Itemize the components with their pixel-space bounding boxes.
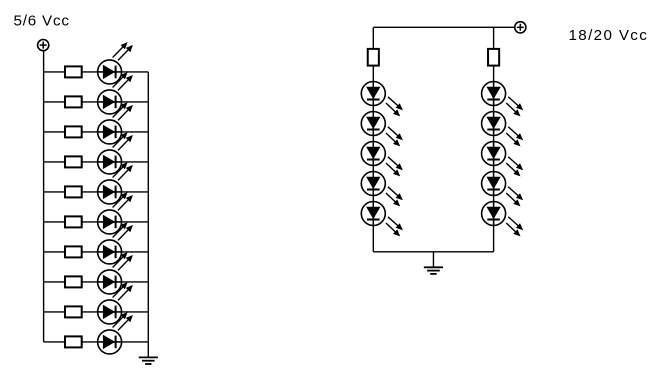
LED D12 bbox=[361, 112, 403, 147]
wire: branch 5 bbox=[44, 191, 149, 193]
LED D15 bbox=[361, 202, 403, 237]
ground (left circuit) bbox=[139, 342, 158, 364]
LED D14 bbox=[361, 172, 403, 207]
LED D10 bbox=[98, 312, 133, 354]
resistor R12 bbox=[488, 49, 499, 66]
wire: branch 8 bbox=[44, 281, 149, 283]
wire: string 2 drop bbox=[493, 27, 495, 49]
LED D2 bbox=[98, 72, 133, 114]
LED D17 bbox=[482, 112, 524, 147]
wire: left supply bus bbox=[43, 51, 45, 342]
svg-text:5/6 Vcc: 5/6 Vcc bbox=[14, 13, 70, 30]
resistor R8 bbox=[65, 276, 82, 287]
resistor R1 bbox=[65, 66, 82, 77]
wire: string 1 drop bbox=[372, 27, 374, 49]
LED D6 bbox=[98, 192, 133, 234]
LED D8 bbox=[98, 252, 133, 294]
supply terminal + (left circuit) bbox=[38, 40, 49, 51]
resistor R9 bbox=[65, 306, 82, 317]
resistor R4 bbox=[65, 156, 82, 167]
wire: bottom rail bbox=[373, 251, 493, 253]
LED D3 bbox=[98, 102, 133, 144]
wire: string 2 body bbox=[493, 66, 495, 252]
ground (right circuit) bbox=[424, 252, 443, 274]
wire: branch 2 bbox=[44, 101, 149, 103]
supply terminal + (right circuit) bbox=[515, 22, 526, 33]
resistor R6 bbox=[65, 216, 82, 227]
wire: branch 1 bbox=[44, 71, 149, 73]
LED D16 bbox=[482, 82, 524, 117]
wire: branch 6 bbox=[44, 221, 149, 223]
wire: top rail bbox=[373, 26, 515, 28]
LED D20 bbox=[482, 202, 524, 237]
LED D7 bbox=[98, 222, 133, 264]
wire: branch 3 bbox=[44, 131, 149, 133]
LED D18 bbox=[482, 142, 524, 177]
wire: string 1 body bbox=[372, 66, 374, 252]
LED D13 bbox=[361, 142, 403, 177]
LED D9 bbox=[98, 282, 133, 324]
LED D19 bbox=[482, 172, 524, 207]
svg-text:18/20 Vcc: 18/20 Vcc bbox=[569, 27, 649, 44]
wire: branch 9 bbox=[44, 311, 149, 313]
resistor R3 bbox=[65, 126, 82, 137]
resistor R5 bbox=[65, 186, 82, 197]
resistor R11 bbox=[368, 49, 379, 66]
wire: branch 10 bbox=[44, 341, 149, 343]
wire: right cathode bus bbox=[147, 72, 149, 342]
resistor R7 bbox=[65, 246, 82, 257]
LED D1 bbox=[98, 42, 133, 84]
LED D5 bbox=[98, 162, 133, 204]
resistor R10 bbox=[65, 336, 82, 347]
wire: branch 7 bbox=[44, 251, 149, 253]
LED D11 bbox=[361, 82, 403, 117]
LED D4 bbox=[98, 132, 133, 174]
wire: branch 4 bbox=[44, 161, 149, 163]
resistor R2 bbox=[65, 96, 82, 107]
